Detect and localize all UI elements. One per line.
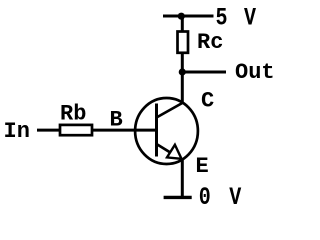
transistor Q1: emitter diagonal <box>157 144 181 159</box>
svg-text:C: C <box>201 89 214 114</box>
wire: emitter lead <box>181 159 184 198</box>
resistor Rb <box>60 125 92 135</box>
label 0 V <box>199 183 242 212</box>
svg-text:Rc: Rc <box>197 30 223 55</box>
ground: 0V rail <box>164 196 192 199</box>
svg-text:In: In <box>4 119 30 144</box>
wire: junction to Out <box>182 71 226 74</box>
transistor Q1: base bar <box>155 104 158 157</box>
wire: In to base <box>37 129 157 132</box>
resistor Rc <box>178 32 189 53</box>
transistor Q1: collector diagonal <box>157 103 183 118</box>
svg-text:V: V <box>229 183 241 209</box>
svg-text:5: 5 <box>216 3 228 32</box>
svg-text:0: 0 <box>199 183 211 209</box>
node: 5V junction dot <box>178 13 185 20</box>
transistor Q1: emitter arrowhead <box>167 145 182 159</box>
svg-text:Rb: Rb <box>60 101 86 126</box>
svg-text:E: E <box>196 154 209 179</box>
wire: +5V top rail <box>163 15 214 18</box>
wire: collector lead <box>181 72 184 104</box>
label 5 V <box>216 3 257 32</box>
node: Out junction dot <box>179 68 186 75</box>
svg-text:V: V <box>244 3 256 32</box>
wire: Rc bottom to Out junction <box>181 53 184 72</box>
wire: 5V rail to Rc top <box>181 16 184 32</box>
svg-text:B: B <box>110 108 123 133</box>
transistor Q1: body circle <box>135 98 198 164</box>
svg-text:Out: Out <box>235 60 275 85</box>
